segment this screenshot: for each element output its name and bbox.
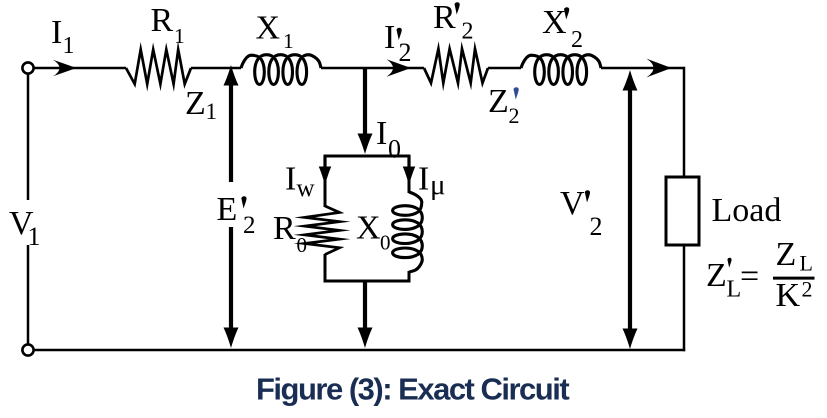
svg-text:I: I	[285, 161, 296, 198]
svg-text:I: I	[384, 19, 395, 56]
wire right vertical lower	[683, 244, 686, 351]
svg-text:Z: Z	[776, 236, 797, 273]
arrow E'2 stem upper	[229, 84, 233, 182]
arrowhead E'2 top	[224, 65, 239, 86]
wire left vertical upper	[27, 73, 30, 200]
svg-text:Load: Load	[712, 192, 782, 229]
svg-text:μ: μ	[430, 169, 446, 201]
arrow V'2 stem	[628, 90, 632, 330]
shunt bottom stem	[363, 281, 367, 330]
svg-text:R: R	[273, 210, 296, 247]
svg-text:Z: Z	[706, 257, 727, 294]
arrowhead E'2 bottom	[224, 328, 239, 349]
wire top: X1 to R'2	[321, 67, 424, 70]
svg-text:w: w	[297, 175, 315, 202]
shunt box bottom rail	[324, 280, 411, 283]
shunt box left rail upper	[324, 155, 327, 208]
equation fraction bar	[773, 277, 815, 280]
shunt box left rail lower	[324, 254, 327, 283]
svg-text:R: R	[151, 2, 174, 39]
svg-text:E: E	[217, 191, 238, 228]
svg-text:V: V	[560, 185, 585, 222]
label V'2 prime	[585, 190, 590, 202]
svg-text:2: 2	[462, 19, 474, 45]
svg-text:1: 1	[28, 222, 41, 251]
svg-text:2: 2	[509, 103, 520, 128]
arrowhead Iw	[319, 167, 332, 186]
svg-text:I: I	[376, 115, 387, 152]
label I'2 prime	[397, 28, 402, 40]
arrow to load	[647, 59, 672, 78]
arrowhead V'2 bottom	[623, 329, 638, 350]
svg-text:0: 0	[388, 135, 401, 164]
resistor R0	[305, 206, 340, 255]
svg-text:2: 2	[243, 212, 256, 239]
svg-text:K: K	[776, 277, 801, 314]
label R'2 prime	[455, 2, 460, 14]
load resistor box	[666, 177, 699, 245]
svg-text:2: 2	[571, 27, 583, 53]
resistor R1	[126, 50, 191, 85]
svg-text:Figure (3): Exact Circuit: Figure (3): Exact Circuit	[256, 372, 569, 407]
svg-text:L: L	[800, 251, 813, 276]
inductor X'2	[521, 55, 601, 85]
svg-text:1: 1	[174, 24, 185, 48]
svg-text:1: 1	[63, 33, 75, 59]
svg-text:2: 2	[802, 277, 813, 302]
arrowhead V'2 top	[623, 70, 638, 91]
terminal bottom-left	[22, 344, 33, 355]
arrowhead I0	[358, 134, 373, 155]
svg-text:0: 0	[380, 231, 391, 255]
svg-text:1: 1	[206, 99, 218, 124]
svg-text:2: 2	[399, 38, 412, 67]
label Z'2 prime blue	[514, 87, 519, 99]
arrow Imu stem	[407, 156, 410, 168]
svg-text:R: R	[433, 0, 456, 36]
arrow I'2	[387, 59, 412, 76]
inductor X0	[393, 192, 423, 272]
arrow Iw stem	[323, 156, 326, 168]
resistor R'2	[424, 49, 488, 83]
inductor X1	[241, 55, 321, 85]
equation Z'L prime	[727, 258, 731, 268]
arrow I1	[53, 60, 77, 77]
label X'2 prime	[564, 7, 569, 19]
svg-text:I: I	[51, 14, 62, 51]
node junction I0 branch stem	[363, 68, 367, 136]
svg-text:X: X	[542, 4, 567, 41]
svg-text:1: 1	[283, 29, 294, 53]
shunt box right rail upper	[408, 155, 411, 194]
svg-text:L: L	[727, 277, 742, 303]
wire top: terminal to R1	[33, 67, 126, 70]
shunt box top rail	[324, 155, 411, 158]
svg-text:0: 0	[297, 233, 308, 257]
svg-text:I: I	[418, 161, 429, 198]
svg-text:=: =	[740, 258, 759, 295]
shunt box right rail lower	[408, 271, 411, 283]
arrow E'2 stem lower	[229, 227, 233, 330]
svg-text:Z: Z	[488, 83, 509, 120]
svg-text:Z: Z	[185, 85, 206, 122]
svg-text:X: X	[256, 10, 281, 47]
wire top: R1 to X1	[191, 67, 241, 70]
svg-text:2: 2	[590, 212, 603, 241]
svg-text:X: X	[356, 210, 381, 247]
wire bottom	[33, 349, 685, 352]
arrowhead Imu	[403, 167, 416, 186]
wire right vertical upper	[683, 67, 686, 177]
wire top: R'2 to X'2	[488, 67, 521, 70]
arrowhead shunt to bottom wire	[358, 328, 373, 349]
label E'2 prime	[241, 196, 246, 208]
wire top: X'2 to right corner	[601, 67, 684, 70]
wire left vertical lower	[27, 245, 30, 345]
terminal top-left	[22, 62, 33, 73]
